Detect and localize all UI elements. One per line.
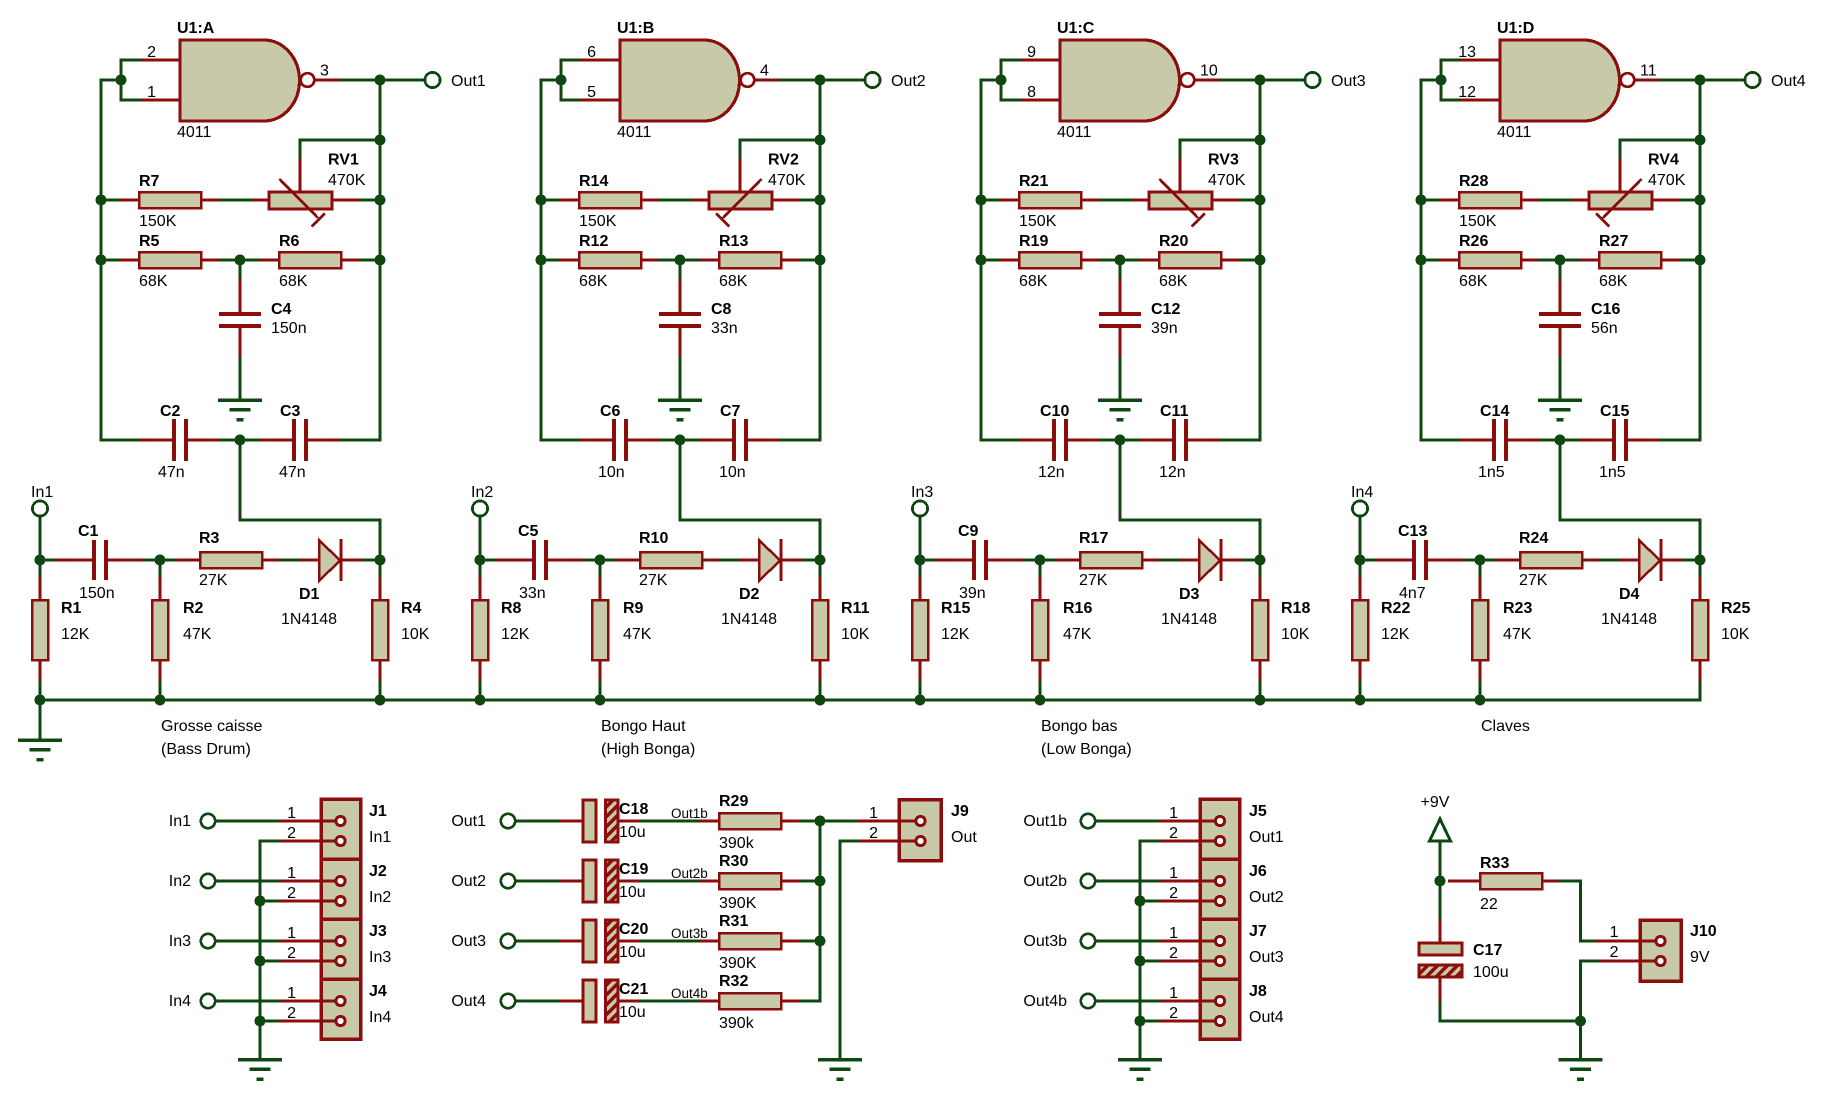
wire R row1 mid: [1100, 199, 1133, 202]
capacitor C8 33n: [659, 279, 701, 359]
svg-text:Out1b: Out1b: [671, 806, 708, 821]
svg-text:11: 11: [1640, 63, 1657, 80]
wire R bottom: [599, 682, 602, 700]
junction R row2: [1255, 255, 1266, 266]
svg-text:47K: 47K: [1063, 626, 1092, 643]
wire R row1 right: [1681, 199, 1700, 202]
svg-text:10K: 10K: [401, 626, 430, 643]
junction R row2: [815, 255, 826, 266]
label R31: [719, 913, 748, 930]
svg-text:47K: 47K: [623, 626, 652, 643]
label R10: [639, 530, 668, 547]
svg-text:1N4148: 1N4148: [281, 611, 337, 628]
wire Rs left: [1040, 559, 1056, 562]
terminal Out1: [425, 72, 440, 87]
wire Out2b to J6: [1096, 880, 1160, 883]
svg-text:R19: R19: [1019, 233, 1048, 250]
capacitor C20 10u: [560, 920, 641, 962]
wire output header ground bus: [1139, 841, 1142, 1058]
svg-text:4011: 4011: [177, 124, 212, 141]
capacitor C11 12n: [1140, 419, 1221, 461]
wire J7 pin2: [1140, 960, 1159, 963]
net label Out4b: [671, 986, 708, 1001]
diode D3 1N4148: [1180, 539, 1244, 581]
label C12: [1151, 301, 1180, 318]
svg-text:12n: 12n: [1159, 464, 1186, 481]
svg-text:D1: D1: [299, 586, 320, 603]
value 1N4148: [1601, 611, 1657, 628]
wire Rs to D: [1160, 559, 1180, 562]
svg-text:10n: 10n: [719, 464, 746, 481]
gate label U1:B: [617, 20, 654, 37]
svg-text:10K: 10K: [1281, 626, 1310, 643]
terminal label In3: [911, 484, 933, 501]
capacitor C17 100u: [1419, 920, 1462, 1003]
value 22: [1480, 896, 1498, 913]
svg-text:C9: C9: [958, 523, 979, 540]
junction rail: [35, 695, 46, 706]
terminal Out4: [1745, 72, 1760, 87]
svg-text:J9: J9: [951, 803, 969, 820]
svg-text:68K: 68K: [279, 273, 308, 290]
wire to Cmid: [239, 260, 242, 279]
wire R row1 left: [1421, 199, 1440, 202]
svg-text:2: 2: [869, 825, 878, 842]
wire R33 to J10 pin1: [1560, 881, 1596, 941]
junction rail: [375, 695, 386, 706]
connector J1: [279, 799, 361, 859]
resistor R17 27K: [1056, 552, 1160, 568]
value 4n7: [1399, 585, 1426, 602]
junction rail: [475, 695, 486, 706]
wire R top: [39, 560, 42, 577]
pin 2 label: [287, 1005, 296, 1022]
terminal In1: [201, 814, 215, 828]
svg-text:150n: 150n: [271, 320, 307, 337]
terminal label Out4b: [1023, 993, 1067, 1010]
svg-text:4: 4: [760, 63, 769, 80]
svg-text:1N4148: 1N4148: [721, 611, 777, 628]
wire feedback left vertical: [541, 80, 561, 440]
value 470K: [1208, 172, 1246, 189]
wire Rs to D: [280, 559, 300, 562]
junction rail: [1475, 695, 1486, 706]
wire R bottom: [1039, 682, 1042, 700]
pin 2 label: [1169, 825, 1178, 842]
svg-text:+9V: +9V: [1421, 794, 1450, 811]
svg-text:J1: J1: [369, 803, 387, 820]
pin 5 label: [587, 84, 596, 101]
junction In row: [1355, 555, 1366, 566]
svg-text:2: 2: [147, 44, 156, 61]
svg-text:68K: 68K: [1459, 273, 1488, 290]
ground: [1098, 400, 1142, 420]
value 150n: [271, 320, 307, 337]
wire Cmid to ground: [1559, 359, 1562, 397]
potentiometer RV1 470K: [253, 159, 362, 227]
label J7: [1249, 923, 1267, 940]
junction output: [375, 75, 386, 86]
NAND gate U1:C (4011): [1019, 40, 1220, 121]
junction bus: [815, 816, 826, 827]
junction bus: [1135, 896, 1146, 907]
wire to Cmid: [1119, 260, 1122, 279]
resistor R16 47K: [1032, 577, 1048, 682]
wire step to diode node: [680, 440, 820, 560]
wire Cmid to ground: [239, 359, 242, 397]
wire output right vertical: [819, 80, 822, 440]
terminal label In2: [471, 484, 493, 501]
svg-text:2: 2: [287, 1005, 296, 1022]
junction bus: [815, 936, 826, 947]
wire R row1 left: [101, 199, 120, 202]
svg-text:C10: C10: [1040, 403, 1069, 420]
wire R bottom: [159, 682, 162, 700]
wire Out1 to C: [516, 820, 561, 823]
junction wiper row: [1255, 135, 1266, 146]
wire feedback left vertical: [101, 80, 121, 440]
wire summing bus: [819, 821, 822, 1001]
wire Cin right: [1024, 559, 1040, 562]
wire Rs left: [160, 559, 176, 562]
label R1: [61, 600, 82, 617]
junction left row1: [536, 195, 547, 206]
junction left row1: [1416, 195, 1427, 206]
value 27K: [639, 572, 668, 589]
svg-text:C21: C21: [619, 981, 648, 998]
wire gate output: [780, 79, 864, 82]
capacitor C13 4n7: [1376, 540, 1464, 580]
pin 1 label: [1610, 924, 1619, 941]
pin 2 label: [1169, 945, 1178, 962]
connector J7: [1159, 919, 1240, 979]
svg-text:R1: R1: [61, 600, 82, 617]
wire R row2 right: [801, 259, 821, 262]
svg-text:C5: C5: [518, 523, 539, 540]
wire C row mid: [1101, 439, 1141, 442]
capacitor C10 12n: [1020, 419, 1101, 461]
label C20: [619, 921, 648, 938]
value 10u: [619, 944, 646, 961]
value 68K: [1599, 273, 1628, 290]
wire R bottom: [479, 682, 482, 700]
svg-text:Out2: Out2: [451, 873, 486, 890]
wire In2 to J2: [216, 880, 280, 883]
label J10 9V: [1690, 949, 1710, 966]
wire Out1b to J5: [1096, 820, 1160, 823]
gate label U1:A: [177, 20, 215, 37]
label R8: [501, 600, 522, 617]
terminal Out4b: [1081, 994, 1095, 1008]
label C8: [711, 301, 732, 318]
terminal label In4: [1351, 484, 1373, 501]
svg-text:C4: C4: [271, 301, 292, 318]
svg-text:10: 10: [1200, 63, 1218, 80]
svg-text:Claves: Claves: [1481, 718, 1530, 735]
svg-text:Out1: Out1: [451, 73, 486, 90]
svg-text:Out4b: Out4b: [671, 986, 708, 1001]
label RV3: [1208, 152, 1239, 169]
terminal label Out2: [891, 73, 926, 90]
label R7: [139, 173, 160, 190]
label R5: [139, 233, 160, 250]
svg-text:150n: 150n: [79, 585, 115, 602]
svg-text:R17: R17: [1079, 530, 1108, 547]
terminal In4: [1352, 501, 1367, 516]
wire to wiper row: [300, 140, 380, 159]
svg-text:2: 2: [287, 945, 296, 962]
svg-text:RV1: RV1: [328, 152, 359, 169]
svg-text:Out3b: Out3b: [1023, 933, 1067, 950]
junction rail: [815, 695, 826, 706]
wire gate inputs tie: [561, 60, 579, 100]
resistor R25 10K: [1692, 577, 1708, 682]
resistor R4 10K: [372, 577, 388, 682]
svg-text:R2: R2: [183, 600, 204, 617]
wire R bottom: [1259, 682, 1262, 700]
resistor R9 47K: [592, 577, 608, 682]
pin 1 label: [287, 865, 296, 882]
terminal In3: [912, 501, 927, 516]
caption text: [1041, 741, 1132, 758]
pin 8 label: [1027, 84, 1036, 101]
svg-text:(High Bonga): (High Bonga): [601, 741, 695, 758]
terminal In3: [201, 934, 215, 948]
label C17: [1473, 942, 1502, 959]
wire Out3b to J7: [1096, 940, 1160, 943]
pin 2 label: [287, 945, 296, 962]
svg-text:R23: R23: [1503, 600, 1532, 617]
terminal label Out1: [451, 813, 486, 830]
wire R row2 mid: [660, 259, 700, 262]
svg-text:J7: J7: [1249, 923, 1267, 940]
wire feedback left vertical: [981, 80, 1001, 440]
potentiometer RV4 470K: [1573, 159, 1682, 227]
svg-text:In3: In3: [369, 949, 391, 966]
resistor R2 47K: [152, 577, 168, 682]
junction mid row2: [675, 255, 686, 266]
value 68K: [1019, 273, 1048, 290]
label C14: [1480, 403, 1509, 420]
pin 1 label: [1169, 925, 1178, 942]
svg-text:R21: R21: [1019, 173, 1048, 190]
value 10n: [719, 464, 746, 481]
label R2: [183, 600, 204, 617]
svg-text:C3: C3: [280, 403, 301, 420]
value 150n: [79, 585, 115, 602]
resistor R8 12K: [472, 577, 488, 682]
svg-text:Out1: Out1: [1249, 829, 1284, 846]
svg-text:RV3: RV3: [1208, 152, 1239, 169]
svg-text:68K: 68K: [1599, 273, 1628, 290]
svg-text:R15: R15: [941, 600, 970, 617]
wire J5 pin2: [1140, 840, 1159, 843]
terminal label Out2: [451, 873, 486, 890]
svg-text:C19: C19: [619, 861, 648, 878]
capacitor C4 150n: [219, 279, 261, 359]
svg-text:10n: 10n: [598, 464, 625, 481]
wire C row right: [1221, 439, 1261, 442]
wire R row2 left: [541, 259, 560, 262]
svg-text:22: 22: [1480, 896, 1498, 913]
caption text: [601, 741, 695, 758]
resistor R11 10K: [812, 577, 828, 682]
label C2: [160, 403, 181, 420]
net label Out2b: [671, 866, 708, 881]
capacitor C1 150n: [56, 540, 144, 580]
svg-text:In4: In4: [1351, 484, 1373, 501]
svg-text:4011: 4011: [1497, 124, 1532, 141]
junction gate input: [556, 75, 567, 86]
wire Rs to D: [720, 559, 740, 562]
label R11: [841, 600, 870, 617]
wire gate output: [340, 79, 424, 82]
NAND gate U1:D (4011): [1459, 40, 1660, 121]
label R3: [199, 530, 220, 547]
wire output right vertical: [1259, 80, 1262, 440]
resistor R19 68K: [1000, 252, 1101, 268]
resistor R31 390K: [700, 933, 801, 949]
terminal label In4: [169, 993, 191, 1010]
pin 2 label: [869, 825, 878, 842]
junction left row2: [96, 255, 107, 266]
junction D node: [815, 555, 826, 566]
terminal label Out1: [451, 73, 486, 90]
svg-text:C17: C17: [1473, 942, 1502, 959]
svg-text:In4: In4: [169, 993, 191, 1010]
svg-text:390k: 390k: [719, 835, 755, 852]
terminal Out3b: [1081, 934, 1095, 948]
label J3 In3: [369, 949, 391, 966]
wire D to node: [364, 559, 381, 562]
gate value 4011: [617, 124, 652, 141]
wire gate output: [1220, 79, 1304, 82]
junction Cin: [1475, 555, 1486, 566]
label R22: [1381, 600, 1410, 617]
wire Out3 to C: [516, 940, 561, 943]
junction C row: [235, 435, 246, 446]
svg-text:1: 1: [287, 925, 296, 942]
wire R top: [1259, 560, 1262, 577]
resistor R30 390K: [700, 873, 801, 889]
capacitor C6 10n: [580, 419, 661, 461]
svg-text:5: 5: [587, 84, 596, 101]
svg-text:R27: R27: [1599, 233, 1628, 250]
junction R row2: [1695, 255, 1706, 266]
wire R row2 left: [1421, 259, 1440, 262]
wire R top: [819, 560, 822, 577]
svg-text:10K: 10K: [1721, 626, 1750, 643]
wire R top: [1359, 560, 1362, 577]
svg-text:10u: 10u: [619, 1004, 646, 1021]
svg-text:C20: C20: [619, 921, 648, 938]
svg-text:Out4: Out4: [1771, 73, 1806, 90]
svg-text:13: 13: [1458, 44, 1476, 61]
wire C row right: [781, 439, 821, 442]
capacitor C3 47n: [260, 419, 341, 461]
pin 1 label: [1169, 985, 1178, 1002]
svg-text:12K: 12K: [501, 626, 530, 643]
wire R row2 right: [361, 259, 381, 262]
svg-text:U1:D: U1:D: [1497, 20, 1534, 37]
svg-text:68K: 68K: [1159, 273, 1188, 290]
pin 2 label: [1169, 885, 1178, 902]
label D4: [1619, 586, 1640, 603]
svg-text:C13: C13: [1398, 523, 1427, 540]
connector J4: [279, 979, 361, 1039]
label R14: [579, 173, 608, 190]
wire ground rail: [40, 699, 1700, 702]
wire step to diode node: [1120, 440, 1260, 560]
wire Out4b to J8: [1096, 1000, 1160, 1003]
terminal In1: [32, 501, 47, 516]
value 470K: [1648, 172, 1686, 189]
wire gate inputs tie: [121, 60, 139, 100]
junction In row: [35, 555, 46, 566]
svg-text:R31: R31: [719, 913, 748, 930]
pin 6 label: [587, 44, 596, 61]
svg-text:R3: R3: [199, 530, 220, 547]
power +9V label: [1421, 794, 1450, 811]
svg-text:R7: R7: [139, 173, 160, 190]
label C4: [271, 301, 292, 318]
label J2 In2: [369, 889, 391, 906]
svg-text:J6: J6: [1249, 863, 1267, 880]
svg-text:In2: In2: [169, 873, 191, 890]
svg-text:150K: 150K: [1459, 213, 1497, 230]
wire J10 pin2 down: [1581, 961, 1600, 1058]
wire gate inputs tie: [1001, 60, 1019, 100]
svg-text:U1:A: U1:A: [177, 20, 215, 37]
svg-text:47n: 47n: [279, 464, 306, 481]
pin 1 label: [147, 84, 156, 101]
caption text: [161, 718, 262, 735]
wire gate inputs tie: [1441, 60, 1459, 100]
junction rail: [1035, 695, 1046, 706]
caption text: [1041, 718, 1118, 735]
resistor R7 150K: [120, 192, 221, 208]
junction Cin: [1035, 555, 1046, 566]
wire R row1 mid: [220, 199, 253, 202]
value 1N4148: [281, 611, 337, 628]
wire R bottom: [1479, 682, 1482, 700]
svg-text:R29: R29: [719, 793, 748, 810]
junction In row: [475, 555, 486, 566]
svg-text:4011: 4011: [617, 124, 652, 141]
svg-text:D4: D4: [1619, 586, 1640, 603]
svg-text:150K: 150K: [1019, 213, 1057, 230]
label R21: [1019, 173, 1048, 190]
value 68K: [279, 273, 308, 290]
label R9: [623, 600, 644, 617]
value 150K: [1019, 213, 1057, 230]
wire R row1 right: [801, 199, 820, 202]
capacitor C15 1n5: [1580, 419, 1661, 461]
wire output right vertical: [1699, 80, 1702, 440]
junction mid row2: [235, 255, 246, 266]
label J5: [1249, 803, 1267, 820]
svg-text:1: 1: [287, 865, 296, 882]
capacitor C18 10u: [560, 800, 641, 842]
resistor R33 22: [1448, 873, 1560, 889]
junction rail: [1255, 695, 1266, 706]
junction R row2: [375, 255, 386, 266]
terminal Out4: [501, 994, 515, 1008]
terminal Out2: [865, 72, 880, 87]
capacitor C19 10u: [560, 860, 641, 902]
wire +9V down: [1439, 841, 1442, 881]
wire Cin right: [144, 559, 160, 562]
